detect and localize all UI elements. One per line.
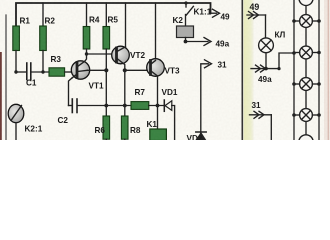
- wire middle row: [16, 71, 26, 73]
- left frame border: [5, 15, 7, 140]
- wire to lamp column: [266, 53, 294, 69]
- wire VT1 collector to VT2 base: [87, 53, 114, 55]
- left rail: [293, 0, 295, 140]
- transistor VT3: [147, 59, 165, 129]
- frame border: [241, 0, 243, 140]
- resistor R8: [121, 106, 128, 141]
- maroon scan edge left: [0, 52, 2, 140]
- resistor R7: [131, 102, 164, 110]
- lamp L1: [294, 15, 319, 28]
- transistor VT2: [112, 46, 147, 105]
- terminal arrow 31: [201, 60, 212, 140]
- sensor K2:1: [8, 104, 24, 140]
- lamp L4: [294, 109, 319, 122]
- pink separator line: [328, 0, 329, 140]
- yellow band of right figure: [244, 0, 254, 140]
- wire bottom row: [69, 105, 72, 107]
- relay coil K2: [177, 15, 194, 42]
- terminal 31 chevron: [250, 111, 272, 140]
- resistor R1: [13, 26, 20, 72]
- wire VT3 collector stub: [155, 3, 157, 59]
- wire R2 top stub: [42, 3, 44, 26]
- top rail: [16, 3, 211, 26]
- lamp L2: [294, 46, 319, 59]
- resistor R4: [83, 27, 90, 55]
- capacitor C2: [72, 99, 131, 113]
- wire R4 top stub: [86, 3, 88, 27]
- lamp L0 partial: [299, 0, 313, 6]
- resistor R5: [103, 27, 110, 106]
- resistor R3: [49, 68, 71, 76]
- resistor R6: [103, 106, 110, 141]
- diode VD2: [196, 132, 206, 140]
- lamp KL: [259, 38, 274, 69]
- right pink margin: [324, 0, 330, 140]
- wire R5 top stub: [105, 3, 107, 27]
- lamp chain links: [305, 0, 307, 15]
- diode VD1: [164, 100, 174, 140]
- terminal 49 chevron: [247, 12, 266, 39]
- right rail: [318, 0, 320, 140]
- transistor VT1: [69, 54, 107, 106]
- resistor R2: [40, 26, 47, 72]
- terminal arrow 49a: [186, 38, 212, 46]
- capacitor C1: [27, 63, 49, 80]
- relay coil K1: [150, 129, 167, 141]
- lamp L3: [294, 78, 319, 91]
- contact K1:1: [186, 3, 193, 15]
- lamp L5 partial: [299, 135, 313, 149]
- paper background: [0, 0, 330, 140]
- terminal arrow 49: [211, 9, 220, 17]
- wire VT2 collector stub: [125, 3, 127, 47]
- terminal 49a chevron: [251, 65, 266, 72]
